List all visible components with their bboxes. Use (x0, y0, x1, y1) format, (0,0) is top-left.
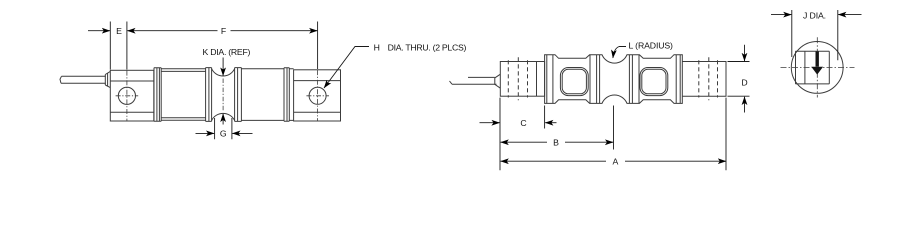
hole circle left (H) (118, 87, 135, 104)
L leader (613, 47, 626, 59)
svg-text:L (RADIUS): L (RADIUS) (629, 41, 674, 51)
cylinder right segment (241, 69, 284, 121)
dim E (88, 22, 110, 70)
waist band right (235, 68, 242, 122)
cable (60, 76, 106, 83)
band A (154, 68, 161, 121)
cable mid (450, 77, 497, 84)
detail circle (791, 42, 843, 94)
rim1 inner verticals (547, 55, 553, 104)
svg-text:B: B (553, 137, 559, 147)
centerline crosshair right hole (306, 95, 329, 97)
cylinder left segment (161, 69, 205, 121)
thread dashed lines left tube (508, 60, 527, 97)
dim B (501, 141, 614, 143)
svg-text:DIA. THRU. (2 PLCS): DIA. THRU. (2 PLCS) (388, 42, 467, 52)
svg-text:D: D (741, 78, 747, 88)
detail centerlines (781, 66, 855, 68)
body outline (545, 55, 683, 104)
waist centerline (222, 79, 224, 112)
svg-text:G: G (220, 129, 227, 139)
svg-text:C: C (520, 118, 526, 128)
right block (294, 70, 341, 121)
pocket 2 (640, 68, 668, 96)
svg-text:K DIA. (REF): K DIA. (REF) (203, 47, 251, 57)
load arrow (filled) (811, 52, 823, 75)
left block inner lines (110, 81, 154, 112)
H leader (324, 47, 369, 89)
pocket 1 (560, 68, 588, 96)
cable connector (105, 71, 110, 87)
right tube (682, 62, 726, 97)
dim G (196, 118, 253, 139)
block chords (796, 51, 830, 84)
thread dashed lines right tube (699, 60, 718, 97)
rim4 verticals (676, 55, 680, 104)
right block inner lines (294, 81, 341, 113)
rim2 verticals (590, 55, 600, 104)
block inner vertical (804, 51, 806, 84)
waist band left (206, 68, 212, 122)
svg-text:E: E (116, 26, 122, 36)
dim A (501, 160, 726, 162)
svg-text:F: F (221, 26, 226, 36)
left threaded tube (500, 62, 544, 97)
dim D (728, 45, 750, 113)
svg-text:J DIA.: J DIA. (803, 11, 826, 21)
left block (110, 70, 154, 121)
band B (284, 68, 289, 122)
hole circle right (H) (309, 87, 326, 104)
thread end line left tube (536, 62, 538, 97)
dim F (127, 22, 318, 70)
rim3 verticals (629, 55, 639, 104)
dim C (480, 122, 557, 124)
neck before right block (289, 69, 293, 121)
svg-text:H: H (374, 42, 380, 52)
svg-text:A: A (612, 156, 618, 166)
dims C B A extension lines (500, 98, 726, 171)
dim J (771, 10, 862, 60)
gland cone mid (495, 74, 501, 88)
K DIA leader arrows (222, 58, 224, 125)
waist curves (212, 69, 235, 76)
centerline crosshair left hole (116, 95, 139, 97)
